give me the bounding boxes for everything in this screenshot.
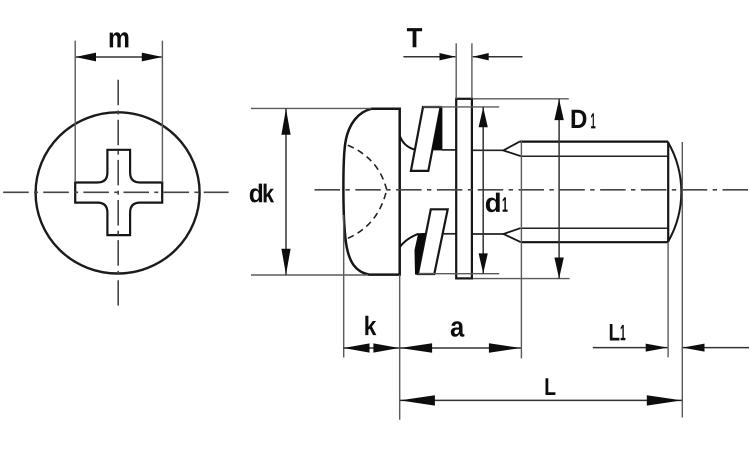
label k of dk	[264, 184, 275, 203]
D1 dimension line	[558, 99, 560, 279]
fillet arc bottom (head to spring washer)	[400, 234, 419, 247]
spring washer top bar	[411, 107, 441, 171]
thread root bottom	[520, 227, 668, 229]
label k	[365, 316, 376, 335]
label L of L1	[610, 324, 620, 341]
T extension line right	[471, 43, 473, 99]
plain shank bottom line (washer to thread)	[473, 233, 504, 235]
side view centerline	[315, 189, 749, 191]
D1 arrowhead up	[554, 99, 563, 120]
L dimension line	[400, 399, 682, 401]
hidden recess dashed curve	[348, 145, 387, 189]
T arrowhead right (points left)	[473, 53, 489, 60]
screw tip extension line	[681, 142, 683, 418]
screw end rounded cap	[668, 143, 681, 242]
T extension line left (washer left edge up)	[455, 43, 457, 99]
m arrowhead left	[75, 53, 96, 62]
label d of d1	[486, 193, 500, 213]
label a	[451, 321, 465, 337]
k extension line (head left extreme)	[343, 215, 345, 358]
L1 dimension line right part	[683, 347, 749, 349]
dk extension line top	[251, 107, 371, 109]
thread chamfer top	[503, 142, 521, 157]
m extension line right	[161, 41, 163, 183]
thread chamfer bottom	[504, 228, 521, 242]
centerline vertical (front view)	[117, 80, 119, 306]
m dimension line	[76, 56, 162, 58]
d1 extension line top	[423, 106, 499, 108]
centerline horizontal (front view)	[3, 191, 228, 193]
d1 arrowhead up	[479, 107, 488, 127]
dk arrowhead down	[281, 249, 290, 275]
L1 arrowhead (points right at cylinder end)	[646, 344, 668, 352]
spring washer bottom black wedge	[415, 233, 425, 274]
a dimension line	[400, 347, 521, 349]
m arrowhead right	[142, 53, 163, 62]
dk extension line bottom	[251, 274, 368, 276]
L arrowhead right	[647, 395, 682, 405]
spring washer bottom bar	[418, 209, 448, 274]
m extension line left	[74, 41, 76, 183]
dk arrowhead up	[281, 109, 290, 135]
label d of dk	[250, 184, 262, 203]
flat washer	[456, 99, 472, 279]
plain shank top line (washer to thread)	[473, 149, 503, 151]
label L	[546, 378, 556, 395]
thread crest bottom	[521, 241, 668, 243]
T arrowhead left (points right)	[440, 53, 456, 60]
fillet arc top (head to spring washer)	[400, 136, 415, 150]
T dimension line right part	[473, 56, 523, 58]
label m	[110, 32, 129, 47]
a arrowhead right	[489, 343, 521, 353]
D1 extension line bottom	[473, 278, 570, 280]
dk dimension line	[285, 108, 287, 275]
label 1 of D1	[591, 113, 595, 128]
L1 extension line (end of cylinder)	[667, 242, 669, 357]
d1 dimension line	[482, 107, 484, 274]
D1 extension line top	[473, 98, 569, 100]
front view: screw head circle	[36, 112, 200, 273]
shank surface segment top (wedge to washer)	[442, 149, 456, 151]
a extension line (thread runout)	[520, 141, 522, 358]
k arrowhead left	[344, 343, 370, 352]
label T	[407, 28, 422, 47]
k dimension line	[343, 347, 399, 349]
a arrowhead left	[400, 343, 432, 353]
screw end vertical	[667, 142, 669, 243]
L1 arrowhead (points left at tip)	[683, 344, 705, 352]
d1 extension line bottom	[418, 273, 499, 275]
label 1 of d1	[503, 197, 508, 212]
label D of D1	[572, 110, 587, 128]
side view: pan head outline	[343, 109, 399, 275]
L1 dimension line left part	[593, 347, 668, 349]
label 1 of L1	[621, 325, 626, 340]
thread crest top	[520, 141, 669, 143]
D1 arrowhead down	[554, 258, 563, 279]
shank surface segment bottom (bar to washer)	[443, 233, 456, 235]
spring washer top black wedge	[432, 108, 442, 150]
L arrowhead left	[400, 395, 435, 405]
d1 arrowhead down	[479, 253, 488, 273]
head face extension line down	[399, 275, 401, 420]
k arrowhead right	[373, 343, 399, 352]
phillips recess cross outline	[75, 150, 162, 235]
T dimension line left part	[403, 56, 455, 58]
thread root top	[521, 155, 668, 157]
